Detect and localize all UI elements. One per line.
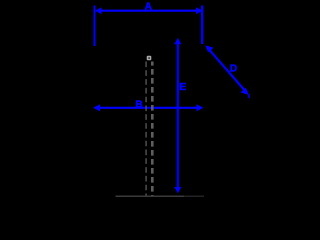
mast left dashed edge	[145, 62, 147, 197]
dimension line A	[97, 10, 200, 12]
mast right dashed edge	[151, 62, 154, 197]
svg-text:D: D	[230, 63, 237, 74]
svg-text:B: B	[135, 99, 142, 110]
arrowhead A right	[196, 7, 203, 14]
ground line faint right part	[184, 195, 204, 197]
arrowhead B right	[197, 104, 204, 111]
dimension line D diagonal	[207, 47, 247, 93]
svg-text:A: A	[145, 2, 152, 13]
mast cap	[147, 56, 152, 61]
extension line left (for dimension A)	[94, 6, 96, 47]
arrowhead E up	[174, 38, 181, 45]
arrowhead D upper	[205, 45, 213, 52]
mast cap dark center	[148, 57, 150, 59]
arrowhead E down	[174, 187, 181, 193]
ground line	[116, 195, 185, 197]
dimension line B	[95, 107, 202, 109]
arrowhead B left	[93, 104, 100, 111]
tick below D lower arrowhead	[248, 94, 250, 98]
dimension line E vertical	[177, 40, 179, 191]
svg-text:E: E	[179, 81, 186, 93]
extension line right (for dimension A)	[201, 6, 203, 45]
arrowhead D lower	[241, 88, 249, 95]
arrowhead A left	[95, 7, 102, 14]
